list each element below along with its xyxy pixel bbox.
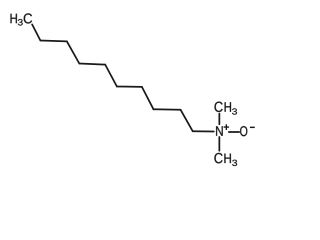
atom label N xyxy=(216,126,223,135)
wire bond N-O xyxy=(229,131,239,133)
wire bond C1-C2 xyxy=(32,24,40,40)
wire bond C9-C10 xyxy=(181,110,193,131)
charge plus on N xyxy=(224,124,229,130)
wire bond C8-C9 xyxy=(154,108,181,111)
methyl label H3C (C1) xyxy=(11,14,17,23)
atom label O xyxy=(240,126,247,136)
wire bond C6-C7 xyxy=(117,86,142,88)
wire bond C5-C6 xyxy=(105,65,117,87)
charge minus on O xyxy=(250,126,255,128)
wire bond N-CH3 bottom xyxy=(218,137,220,151)
wire bond C7-C8 xyxy=(142,87,154,109)
wire bond C4-C5 xyxy=(79,64,105,65)
methyl label CH3 top xyxy=(215,102,223,112)
wire bond C2-C3 xyxy=(40,40,67,43)
wire bond C3-C4 xyxy=(67,41,79,63)
wire bond C10-N xyxy=(193,130,214,132)
wire bond N-CH3 top xyxy=(218,114,220,125)
methyl label CH3 bottom xyxy=(214,153,222,163)
